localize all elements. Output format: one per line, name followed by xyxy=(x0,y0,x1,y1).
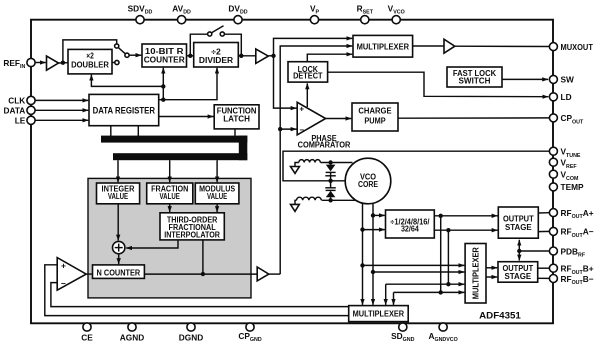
summer node xyxy=(113,241,125,253)
wire CLK to data register xyxy=(35,99,88,101)
wire phase comparator to lock detect xyxy=(306,83,308,107)
data register box xyxy=(89,94,159,125)
svg-text:−: − xyxy=(61,278,66,288)
svg-text:VALUE: VALUE xyxy=(108,191,128,201)
wire interpolator clock xyxy=(202,240,204,274)
wire feedback plus path xyxy=(45,265,349,316)
wire VCO to RF divider 1 xyxy=(373,214,385,216)
wire branch 2 to bottom mux xyxy=(385,284,387,305)
fraction value box xyxy=(147,183,193,204)
divider bypass switch contact right xyxy=(220,32,224,36)
wire modulus to interpolator xyxy=(216,204,218,212)
pin CE xyxy=(81,323,93,343)
svg-text:INTERPOLATOR: INTERPOLATOR xyxy=(164,231,220,240)
wire phase comparator to charge pump xyxy=(326,118,352,120)
wire N counter output xyxy=(144,273,257,275)
wire feedback minus path xyxy=(51,283,349,307)
doubler bypass switch contact xyxy=(115,44,119,48)
wire output stage A to RFOUTA+ xyxy=(538,212,549,214)
pin DVDD xyxy=(228,3,247,23)
svg-text:VALUE: VALUE xyxy=(207,191,227,201)
svg-text:MULTIPLEXER: MULTIPLEXER xyxy=(471,247,481,300)
wire vmux to output stage B 2 xyxy=(486,276,497,278)
op-amp phase comparator xyxy=(297,102,325,135)
pin AGNDVCO xyxy=(428,323,457,343)
pin RFOUTB+ xyxy=(549,264,593,276)
node VCO1 to vmux xyxy=(360,263,364,267)
pin PDBRF xyxy=(549,246,585,258)
bus bar connector xyxy=(239,136,248,161)
svg-text:LATCH: LATCH xyxy=(223,114,250,124)
svg-text:MULTIPLEXER: MULTIPLEXER xyxy=(353,309,405,319)
wire feedback to multiplexer input 2 xyxy=(280,46,352,274)
wire RF divider out 1 to output stage A xyxy=(434,215,497,217)
chip outer border xyxy=(31,20,553,324)
pin CLK xyxy=(8,96,35,106)
ground symbol L2 xyxy=(295,200,297,204)
inductor L2 xyxy=(297,197,322,200)
wire R counter to divider xyxy=(187,55,194,57)
wire divider bypass right xyxy=(225,34,242,56)
svg-text:DETECT: DETECT xyxy=(293,71,323,81)
vertical multiplexer box xyxy=(465,244,486,304)
wire PDBRF xyxy=(519,250,549,252)
wire data register to dividers xyxy=(159,68,217,100)
third-order fractional interpolator box xyxy=(160,213,224,240)
node VTUNE varactor xyxy=(328,179,332,183)
wire buffer to doubler with junction xyxy=(59,62,69,64)
wire divider to buffer xyxy=(238,55,256,57)
svg-text:LE: LE xyxy=(15,116,26,126)
N counter box xyxy=(93,265,145,279)
wire integer to summer xyxy=(117,204,119,241)
wire vmux to output stage B 1 xyxy=(486,267,497,269)
wire junction to doubler xyxy=(91,75,163,87)
wire bus to fraction value xyxy=(169,160,171,182)
node feedback to phase comparator xyxy=(278,127,282,131)
wire VCO output 1 xyxy=(362,203,364,305)
node interpolator clock tap xyxy=(201,272,205,276)
svg-text:MUXOUT: MUXOUT xyxy=(561,42,593,52)
wire lock detect to multiplexer input 3 xyxy=(307,54,352,62)
pin TEMP xyxy=(549,182,584,192)
op-amp reference buffer 2 xyxy=(256,49,268,63)
wire buffer2 to junction xyxy=(268,55,273,57)
node branch 2 xyxy=(446,282,450,286)
wire charge pump to CPOUT pin xyxy=(398,117,550,119)
doubler output contact xyxy=(115,60,119,64)
wire VCO2 to vmux input 2 xyxy=(373,271,464,273)
node R path junction xyxy=(161,98,165,102)
wire lock detect to LD pin xyxy=(328,72,549,97)
divider by 2 box xyxy=(194,43,239,68)
pin AGND xyxy=(120,323,144,343)
svg-text:DOUBLER: DOUBLER xyxy=(71,59,109,69)
wire VCO to RF divider 2 xyxy=(363,229,385,231)
node divider bypass left xyxy=(188,54,192,58)
wire junction to R counter xyxy=(162,68,164,100)
pin VREF xyxy=(549,158,577,170)
wire PDBRF to output stage A xyxy=(518,240,520,251)
wire output stage B to RFOUTB+ xyxy=(538,267,550,269)
wire feedback to phase comparator minus xyxy=(280,128,296,130)
wire L2 to VCO xyxy=(322,199,357,201)
wire fast lock switch to SW pin xyxy=(502,78,548,80)
wire interpolator to summer xyxy=(126,240,178,248)
op-amp muxout buffer xyxy=(444,39,455,53)
switch lever doubler xyxy=(118,48,125,54)
svg-text:ADF4351: ADF4351 xyxy=(479,310,521,321)
sigma-delta gray block xyxy=(88,178,251,298)
wire summer to N counter xyxy=(118,254,120,264)
wire input stage to N counter xyxy=(86,273,92,275)
inductor L1 xyxy=(299,160,321,163)
svg-text:CLK: CLK xyxy=(8,96,25,106)
pin RFOUTB- xyxy=(549,274,593,286)
svg-text:SW: SW xyxy=(561,75,575,85)
node divider out 1 xyxy=(439,214,443,218)
svg-text:TEMP: TEMP xyxy=(561,182,585,192)
pin SDGND xyxy=(391,323,414,343)
node branch 1 xyxy=(439,290,443,294)
svg-text:CE: CE xyxy=(81,333,93,343)
fast lock switch box xyxy=(447,67,502,87)
node doubler feed junction xyxy=(161,84,165,88)
ground symbol L1 xyxy=(295,163,299,167)
pin LE xyxy=(15,116,35,126)
wire VCO1 to vmux input 1 xyxy=(363,264,465,266)
pin MUXOUT xyxy=(549,42,593,52)
svg-text:COMPARATOR: COMPARATOR xyxy=(298,140,351,150)
node doubler input junction xyxy=(61,61,65,65)
node divider bypass right xyxy=(239,54,243,58)
pin VVCO xyxy=(388,3,405,23)
svg-text:+: + xyxy=(61,261,66,271)
svg-text:AGND: AGND xyxy=(120,333,144,343)
pin VCOM xyxy=(549,170,579,182)
pin CPOUT xyxy=(549,113,584,125)
switch lever divider open xyxy=(212,26,224,33)
wire output stage A to RFOUTA- xyxy=(538,230,549,232)
wire L1 to varactor node xyxy=(320,162,352,164)
wire data register to function latch xyxy=(159,116,214,118)
node L2 varactor xyxy=(328,198,332,202)
wire divider branch 1 down xyxy=(440,216,442,293)
wire divider bypass left xyxy=(190,34,207,56)
capacitor C2 xyxy=(330,181,332,188)
svg-text:DATA REGISTER: DATA REGISTER xyxy=(93,106,156,116)
op-amp reference input buffer xyxy=(47,56,59,70)
node PDBRF xyxy=(517,249,521,253)
pin CPGND xyxy=(238,323,261,343)
integer value box xyxy=(97,183,140,204)
wire VCO output 2 xyxy=(372,203,374,305)
wire bus to modulus value xyxy=(216,160,218,182)
node divider out 2 xyxy=(446,228,450,232)
multiplexer box top xyxy=(353,35,413,57)
wire switch to R counter xyxy=(129,54,141,56)
output stage B box xyxy=(498,262,538,283)
varactor D2 xyxy=(326,189,336,191)
pin SDVDD xyxy=(128,3,153,23)
capacitor C1 xyxy=(325,175,336,177)
wire fraction to interpolator xyxy=(169,204,171,212)
op-amp N counter input stage xyxy=(57,258,86,291)
wire buffer to MUXOUT pin xyxy=(455,45,550,47)
bus bar lower xyxy=(113,153,247,160)
pin VTUNE xyxy=(549,147,581,159)
wire doubler output stub xyxy=(112,62,115,64)
wire divider branch 2 down xyxy=(447,230,449,284)
svg-text:LD: LD xyxy=(561,92,572,102)
svg-text:−: − xyxy=(299,126,304,135)
node L1 varactor xyxy=(328,160,332,164)
wire doubler bypass xyxy=(63,40,117,63)
wire PDBRF to output stage B xyxy=(518,251,520,261)
svg-text:STAGE: STAGE xyxy=(504,271,531,281)
bottom multiplexer box xyxy=(349,306,409,322)
svg-text:SWITCH: SWITCH xyxy=(459,76,491,86)
svg-text:DATA: DATA xyxy=(3,106,25,116)
wire output stage B to RFOUTB- xyxy=(538,277,550,279)
wire branch 1 to bottom mux xyxy=(393,292,395,305)
pin REFIN xyxy=(3,58,35,70)
wire function latch to bus xyxy=(234,129,236,137)
wire VTUNE loop top xyxy=(283,151,550,181)
svg-text:PUMP: PUMP xyxy=(364,116,385,126)
svg-text:VALUE: VALUE xyxy=(160,191,180,201)
wire bus to integer value xyxy=(117,160,119,182)
node VCO to RF divider 1 xyxy=(371,213,375,217)
wire branch 2 to vmux input 3 xyxy=(386,283,465,285)
svg-text:CHARGE: CHARGE xyxy=(358,106,391,116)
pin DATA xyxy=(3,106,35,116)
lock detect box xyxy=(288,62,328,82)
wire buffer to feedback riser xyxy=(269,273,280,275)
pin RFOUTA- xyxy=(549,227,593,239)
svg-text:+: + xyxy=(299,104,304,113)
svg-text:CORE: CORE xyxy=(358,179,378,189)
bus bar upper xyxy=(101,136,247,143)
RF divider box xyxy=(386,210,435,238)
svg-text:STAGE: STAGE xyxy=(505,222,532,232)
wire LE to data register xyxy=(35,119,88,121)
varactor D1 xyxy=(326,165,336,172)
pin DGND xyxy=(179,323,203,343)
divider bypass switch contact left xyxy=(208,32,212,36)
pin VP xyxy=(310,3,320,23)
wire branch 1 to vmux input 4 xyxy=(394,291,465,293)
pin RFOUTA+ xyxy=(549,208,593,220)
switch common contact doubler xyxy=(125,53,129,57)
svg-text:DGND: DGND xyxy=(179,333,203,343)
op-amp N counter output buffer xyxy=(257,267,269,281)
wire reference to phase comparator plus xyxy=(274,56,297,108)
wire reference to multiplexer input 1 xyxy=(274,38,353,55)
svg-text:32/64: 32/64 xyxy=(401,223,419,233)
pin SW xyxy=(549,75,574,85)
wire multiplexer to output buffer xyxy=(413,45,444,47)
svg-text:MULTIPLEXER: MULTIPLEXER xyxy=(357,41,410,51)
svg-text:COUNTER: COUNTER xyxy=(144,55,186,65)
svg-text:DIVIDER: DIVIDER xyxy=(199,55,234,65)
node VCO to RF divider 2 xyxy=(360,227,364,231)
svg-text:N COUNTER: N COUNTER xyxy=(97,267,141,277)
pin RSET xyxy=(357,3,374,23)
wire RF divider out 2 to output stage A xyxy=(434,229,497,231)
modulus value box xyxy=(195,183,239,204)
node VCO2 to vmux xyxy=(371,270,375,274)
10-bit R counter box xyxy=(142,44,187,67)
VCO core circle xyxy=(345,158,391,204)
wire REFIN to input buffer xyxy=(35,62,46,64)
output stage A box xyxy=(498,207,538,238)
pin AVDD xyxy=(172,3,191,23)
doubler x2 box xyxy=(68,49,112,74)
pin LD xyxy=(549,92,571,102)
node reference distribution xyxy=(271,54,275,58)
wire DATA to data register xyxy=(35,109,88,111)
function latch box xyxy=(214,105,259,129)
wire data register bus taps xyxy=(110,126,112,137)
charge pump box xyxy=(352,103,398,131)
